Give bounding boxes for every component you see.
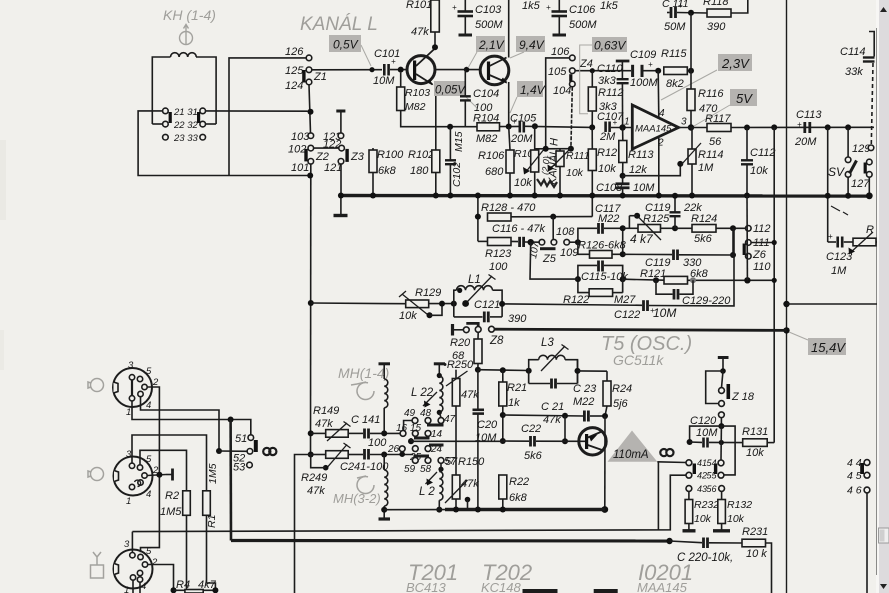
svg-text:R128 - 470: R128 - 470 — [481, 202, 536, 214]
wire C112 column to R121 row — [746, 196, 748, 280]
svg-text:KANÁL L: KANÁL L — [300, 14, 378, 35]
switch Z3 bar — [345, 149, 348, 162]
svg-text:10k: 10k — [598, 163, 616, 175]
svg-text:M82: M82 — [476, 133, 497, 145]
svg-text:L 2: L 2 — [419, 486, 435, 498]
svg-text:500M: 500M — [475, 19, 503, 31]
wire KH 21 to left down — [138, 111, 310, 176]
MH bar right of 24 — [429, 444, 444, 447]
svg-text:L3: L3 — [541, 337, 554, 349]
wire 106/104 tie row — [535, 148, 571, 150]
svg-text:55: 55 — [707, 471, 718, 481]
capacitor C129-220 — [656, 280, 673, 294]
svg-text:L1: L1 — [468, 274, 481, 286]
svg-text:M82: M82 — [405, 101, 426, 113]
MH switch contact 15 — [412, 431, 418, 437]
svg-text:100M: 100M — [630, 77, 658, 89]
svg-text:126: 126 — [285, 46, 304, 58]
wire T2 collector up — [508, 0, 510, 58]
svg-text:R1: R1 — [206, 515, 218, 528]
capacitor C123 — [827, 127, 829, 242]
svg-text:23 33: 23 33 — [173, 133, 198, 144]
svg-text:•R250: •R250 — [443, 359, 474, 371]
svg-text:+: + — [613, 118, 618, 127]
ground under head 2 — [379, 517, 391, 520]
MH switch contact 16 — [400, 431, 406, 437]
svg-text:3: 3 — [681, 117, 687, 128]
svg-text:56: 56 — [709, 136, 722, 148]
svg-text:R132: R132 — [727, 499, 752, 511]
wire 49 to 16 jog — [404, 421, 413, 431]
wire op-amp output — [679, 127, 707, 129]
svg-text:R131: R131 — [742, 426, 768, 438]
switch contact 55 — [718, 472, 724, 478]
MH bar above 59-58 — [414, 455, 430, 458]
svg-text:1k5: 1k5 — [600, 0, 619, 12]
terminal 126 — [306, 55, 312, 61]
MH switch contact 59 — [412, 458, 418, 464]
MH switch contact 49 — [412, 418, 418, 424]
terminal 124 — [306, 79, 312, 85]
svg-text:MAA145: MAA145 — [637, 580, 688, 593]
scrollbar down arrow — [880, 584, 887, 589]
KH contact bar right — [197, 112, 200, 123]
svg-text:42: 42 — [697, 471, 707, 481]
svg-text:47k: 47k — [307, 485, 325, 497]
wire DIN3 pin2 to R4 — [148, 565, 174, 591]
svg-text:390: 390 — [508, 313, 527, 325]
wire R121 row down right side — [773, 280, 775, 442]
svg-text:9,4V: 9,4V — [519, 38, 545, 52]
svg-text:R150: R150 — [458, 456, 485, 468]
voltage box 1,4V — [517, 81, 543, 97]
head 1 coil with tee — [379, 362, 391, 365]
wire 46 down — [866, 493, 868, 593]
svg-text:C20: C20 — [477, 419, 498, 431]
svg-text:+: + — [648, 60, 653, 69]
svg-text:2,3V: 2,3V — [721, 56, 750, 71]
node T1 collector — [432, 44, 438, 50]
svg-text:C 21: C 21 — [541, 401, 564, 413]
MH junction to oscillator line — [408, 438, 414, 444]
resistor R123 — [488, 238, 512, 246]
svg-text:1: 1 — [126, 407, 131, 418]
emitter bus thick — [445, 508, 605, 511]
svg-text:4 6: 4 6 — [847, 485, 862, 497]
wire 101 column lower node — [308, 452, 314, 458]
svg-text:R129: R129 — [415, 287, 441, 299]
wire column from 51 node down (thick) — [229, 420, 232, 541]
svg-text:15: 15 — [410, 423, 422, 434]
svg-text:4 k7: 4 k7 — [630, 232, 654, 246]
wire 111 to feedback column — [751, 242, 774, 244]
switch contact 56 — [719, 486, 725, 492]
svg-text:KH (1-4): KH (1-4) — [163, 7, 216, 23]
capacitor C102 with vertical label — [449, 127, 451, 160]
svg-text:+: + — [391, 57, 396, 66]
wire R128/R123 left column — [477, 196, 479, 242]
svg-text:MH(3-2): MH(3-2) — [333, 491, 381, 506]
svg-text:C121: C121 — [474, 299, 500, 311]
wire 125 to C101 — [312, 69, 382, 71]
svg-text:53: 53 — [233, 462, 246, 474]
svg-text:51: 51 — [235, 433, 247, 445]
svg-text:4 4: 4 4 — [847, 457, 862, 469]
svg-text:C22: C22 — [521, 423, 541, 435]
KH contact bar left — [169, 112, 172, 123]
svg-text:R125: R125 — [643, 213, 670, 225]
wire C23 row tap to T5 base — [564, 416, 566, 442]
wire DIN1 pin1 down right — [132, 401, 251, 435]
svg-text:47k: 47k — [461, 389, 479, 401]
voltage box 5V — [730, 89, 757, 106]
wires DIN3 pins down — [132, 580, 134, 593]
KH contact 21 — [163, 108, 169, 114]
svg-text:10k: 10k — [694, 513, 712, 525]
wire 124 down to junction — [309, 85, 311, 133]
svg-text:5: 5 — [146, 366, 152, 377]
transistor case outline bottom right — [594, 589, 618, 593]
svg-text:26: 26 — [387, 444, 400, 455]
svg-text:0,5V: 0,5V — [333, 38, 359, 52]
wire T1 collector/base coupling to T2 — [435, 69, 481, 71]
wire T1 emitter down to R102 — [435, 84, 437, 150]
svg-text:3k3: 3k3 — [598, 75, 617, 87]
terminal 112 — [746, 226, 752, 232]
svg-text:1k5: 1k5 — [522, 0, 541, 12]
svg-text:R102: R102 — [408, 149, 434, 161]
svg-text:5j6: 5j6 — [613, 398, 629, 410]
svg-text:R20: R20 — [450, 337, 471, 349]
svg-text:20M: 20M — [510, 133, 533, 145]
svg-text:+: + — [828, 232, 833, 241]
svg-text:0,05V: 0,05V — [435, 85, 466, 97]
svg-text:100: 100 — [489, 261, 508, 273]
KH contact 23 — [163, 134, 169, 140]
MH switch contact 26 — [399, 446, 405, 452]
resistor R1 — [203, 491, 211, 516]
MH switch contact 57 — [438, 458, 444, 464]
head 2 coil — [383, 455, 385, 471]
KH contact 31 — [200, 108, 206, 114]
svg-text:10M: 10M — [373, 75, 395, 87]
wire R20 node to L3 tank — [478, 369, 529, 372]
small dashes decor — [831, 206, 840, 211]
svg-text:56: 56 — [707, 484, 717, 494]
svg-text:127: 127 — [851, 178, 870, 190]
switch Z2 bar — [304, 149, 307, 162]
svg-text:R100: R100 — [377, 149, 404, 161]
svg-text:4: 4 — [146, 489, 151, 500]
svg-text:10k: 10k — [514, 177, 532, 189]
svg-text:4: 4 — [141, 581, 146, 592]
svg-text:10k: 10k — [399, 310, 417, 322]
svg-text:105: 105 — [548, 66, 567, 78]
svg-text:1: 1 — [124, 585, 129, 593]
svg-text:GC511k: GC511k — [613, 352, 664, 368]
wire T2 emitter down to R106 — [508, 82, 510, 126]
svg-text:2: 2 — [151, 557, 158, 568]
wire KH 31 to node 101 column — [206, 110, 308, 112]
svg-text:125: 125 — [285, 65, 304, 77]
svg-text:R124: R124 — [691, 213, 717, 225]
svg-text:1k: 1k — [508, 397, 520, 409]
current triangle 110mA — [608, 431, 658, 462]
svg-text:+: + — [512, 117, 517, 126]
wire R113 bottom to R114 wiper — [623, 164, 681, 176]
svg-text:6k8: 6k8 — [378, 165, 397, 177]
svg-text:50M: 50M — [664, 21, 686, 33]
svg-text:R112: R112 — [598, 87, 623, 99]
tank wires — [528, 371, 530, 384]
wire 108 column — [552, 217, 554, 240]
svg-text:33k: 33k — [845, 66, 863, 78]
svg-text:3: 3 — [128, 360, 134, 371]
wire 102 to 122 — [314, 147, 339, 149]
voltage box 15,4V — [808, 338, 846, 355]
head KH box with coil — [152, 57, 170, 124]
voltage box 0,5V — [329, 35, 361, 52]
MH bar 15-14 — [414, 437, 430, 440]
svg-text:(2,0): (2,0) — [540, 156, 552, 175]
svg-text:R113: R113 — [628, 149, 654, 161]
wire R115 node down to op-amp pin4 — [657, 71, 660, 118]
bracket 44/45 — [860, 463, 864, 474]
scrollbar thumb — [879, 528, 889, 543]
switch contact 41 — [686, 460, 692, 466]
svg-text:2M: 2M — [599, 131, 616, 143]
svg-text:43: 43 — [697, 484, 707, 494]
wire DIN2 pin2 to stub — [147, 475, 166, 476]
svg-text:+: + — [546, 3, 551, 12]
KH contact 33 — [200, 134, 206, 140]
svg-text:102: 102 — [288, 144, 306, 156]
svg-text:C101: C101 — [374, 48, 400, 60]
KH contact 32 — [200, 121, 206, 127]
playback head icon gray — [357, 476, 374, 494]
svg-text:110mA: 110mA — [613, 449, 649, 461]
svg-text:1M5: 1M5 — [207, 463, 219, 484]
svg-text:C102: C102 — [451, 162, 463, 187]
wire op-amp pin2 to ground bus — [658, 138, 660, 196]
svg-text:C 141: C 141 — [351, 414, 380, 426]
svg-text:15,4V: 15,4V — [811, 340, 846, 355]
bars 41/42 — [693, 464, 696, 475]
wire 121 down to ground bus — [340, 164, 342, 195]
svg-text:M15: M15 — [453, 131, 465, 152]
wire C111 node down to R115 node — [690, 13, 692, 71]
svg-text:C106: C106 — [569, 4, 596, 16]
op-amp U MAA145 — [632, 105, 678, 149]
terminal 111 — [746, 240, 752, 246]
voltage box 9,4V — [516, 36, 545, 52]
switch Z1 bar — [302, 70, 305, 83]
svg-text:C103: C103 — [475, 4, 502, 16]
erase head icon gray — [180, 25, 193, 45]
svg-text:100: 100 — [368, 437, 387, 449]
svg-text:12k: 12k — [629, 164, 647, 176]
wire DIN2 pin3 up to R1 — [132, 435, 207, 491]
MH bar 48-47 — [427, 424, 444, 427]
svg-text:C112: C112 — [750, 147, 775, 159]
svg-text:R232: R232 — [694, 499, 719, 511]
svg-text:5: 5 — [146, 546, 152, 557]
antenna icon gray — [91, 552, 104, 578]
svg-text:M22: M22 — [573, 396, 594, 408]
svg-text:112: 112 — [753, 223, 771, 235]
wire Z8 row to divider — [783, 327, 789, 333]
svg-text:R149: R149 — [313, 405, 339, 417]
transistor T1 — [407, 56, 435, 84]
wire DIN1 pin2 right and down — [141, 387, 160, 552]
wire right branch to contact 55 — [721, 426, 735, 475]
mic icon gray — [88, 379, 104, 392]
svg-text:49: 49 — [404, 408, 416, 419]
wire DIN1 pin4 down right — [141, 397, 220, 451]
KH contact 22 — [163, 121, 169, 127]
svg-text:59: 59 — [404, 464, 416, 475]
wire DIN3 pin3 up to long line — [131, 532, 133, 553]
svg-text:47k: 47k — [461, 478, 479, 490]
svg-text:Z5: Z5 — [542, 253, 557, 265]
MH switch contact 47 — [438, 418, 444, 424]
svg-text:129: 129 — [852, 143, 870, 155]
svg-text:103: 103 — [291, 131, 310, 143]
svg-text:10k: 10k — [727, 513, 745, 525]
svg-text:109: 109 — [560, 247, 578, 259]
svg-text:16: 16 — [396, 423, 408, 434]
capacitor C122 and M27 wire — [503, 304, 642, 305]
svg-text:1M5: 1M5 — [160, 506, 182, 518]
wire 105 to R112 top — [575, 70, 625, 72]
svg-text:SV: SV — [828, 165, 845, 179]
svg-text:Z1: Z1 — [313, 71, 327, 83]
wire T5 collector/emitter column — [604, 416, 606, 510]
svg-text:680: 680 — [485, 166, 504, 178]
svg-text:500M: 500M — [569, 19, 597, 31]
svg-text:C119: C119 — [645, 202, 670, 214]
svg-text:57: 57 — [444, 456, 456, 467]
svg-text:10k: 10k — [746, 447, 764, 459]
svg-text:390: 390 — [707, 21, 726, 33]
svg-text:48: 48 — [420, 408, 432, 419]
svg-text:Z8: Z8 — [489, 335, 504, 347]
switch Z5 contacts — [539, 239, 545, 245]
svg-text:R24: R24 — [612, 383, 632, 395]
svg-text:R22: R22 — [509, 476, 529, 488]
svg-text:R111: R111 — [566, 150, 590, 162]
svg-text:58: 58 — [420, 464, 432, 475]
svg-text:2,1V: 2,1V — [478, 38, 505, 52]
headphone icon gray — [88, 468, 104, 481]
svg-text:101: 101 — [291, 162, 309, 174]
main lower bus thick — [231, 539, 670, 543]
svg-text:+: + — [797, 120, 802, 129]
transistor T5 oscillator — [579, 428, 606, 455]
wire head2 ground row to L2 — [384, 509, 445, 511]
long line to oscillator switch — [132, 475, 686, 531]
svg-text:0,63V: 0,63V — [594, 39, 626, 53]
svg-text:106: 106 — [551, 46, 570, 58]
contact below Z18 — [719, 412, 725, 418]
svg-text:R126-6k8: R126-6k8 — [578, 240, 627, 252]
scrollbar up arrow — [880, 7, 887, 12]
tee stub — [171, 469, 174, 481]
svg-text:Z6: Z6 — [752, 249, 767, 261]
svg-text:10M: 10M — [696, 427, 718, 439]
terminal 110 — [746, 253, 752, 259]
wire 101 down the long column — [310, 164, 312, 454]
node T1 base — [398, 67, 404, 73]
main ground bus — [341, 194, 872, 198]
svg-text:C 23: C 23 — [573, 383, 597, 395]
voltage box 2,3V — [718, 54, 752, 71]
svg-text:3: 3 — [126, 449, 132, 460]
link icon oo — [263, 448, 270, 455]
schematic page right edge — [876, 28, 878, 575]
svg-text:14: 14 — [431, 429, 443, 440]
svg-text:22 32: 22 32 — [173, 120, 198, 131]
DIN connector 1 — [113, 368, 152, 407]
switch contact 54 — [718, 460, 724, 466]
voltage box 0,63V — [592, 37, 627, 52]
svg-text:C114: C114 — [840, 46, 865, 58]
svg-text:C107: C107 — [597, 111, 624, 123]
svg-text:C120: C120 — [690, 415, 717, 427]
switch Z8 with tee stub — [451, 324, 454, 336]
svg-text:5: 5 — [146, 454, 152, 465]
svg-text:R116: R116 — [698, 88, 724, 100]
terminal 125 — [306, 67, 312, 73]
svg-text:10M: 10M — [633, 182, 655, 194]
svg-text:R101: R101 — [406, 0, 432, 11]
svg-text:5k6: 5k6 — [694, 233, 713, 245]
switch Z6 bar — [743, 244, 746, 256]
connector bracket 51/52 — [254, 440, 258, 452]
svg-text:180: 180 — [410, 165, 429, 177]
svg-text:R21: R21 — [507, 382, 527, 394]
resistor R103 — [400, 73, 402, 87]
switch contact 43 — [686, 486, 692, 492]
svg-text:3: 3 — [124, 539, 130, 550]
feedback vertical line — [773, 127, 775, 280]
svg-text:R249: R249 — [301, 472, 327, 484]
svg-text:124: 124 — [285, 80, 303, 92]
svg-text:21 31: 21 31 — [173, 107, 198, 118]
svg-text:1: 1 — [126, 496, 131, 507]
svg-text:KC148: KC148 — [481, 580, 522, 593]
svg-text:5k6: 5k6 — [524, 450, 543, 462]
wire R103-C104-R104 row — [447, 126, 477, 128]
svg-text:R115: R115 — [661, 48, 687, 60]
svg-text:110: 110 — [753, 261, 771, 273]
svg-text:MAA145: MAA145 — [635, 124, 672, 135]
svg-text:10k: 10k — [750, 165, 768, 177]
svg-text:R231: R231 — [742, 526, 768, 538]
vertical line x294 — [295, 455, 311, 593]
svg-text:C122: C122 — [614, 309, 640, 321]
MH switch contact 58 — [425, 458, 431, 464]
svg-text:C241-100: C241-100 — [340, 461, 389, 473]
wire 110mA to contacts 41 — [657, 461, 686, 464]
transistor T2 — [480, 56, 509, 85]
switch contact 42 — [686, 472, 692, 478]
capacitor C220-10k — [666, 538, 672, 544]
svg-text:R106: R106 — [478, 150, 505, 162]
svg-text:+: + — [678, 1, 683, 10]
DIN connector 2 — [114, 457, 153, 496]
section divider vertical line — [786, 0, 788, 593]
